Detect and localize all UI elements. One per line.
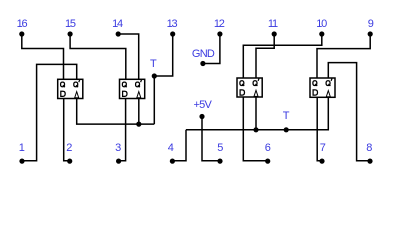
- pin label 11: [268, 19, 277, 29]
- wire FF2 clock stub: [138, 99, 140, 125]
- pin 11: [272, 31, 277, 36]
- pin 16: [19, 31, 24, 36]
- wire FF4 D to pin7: [317, 97, 322, 161]
- pin 2: [67, 159, 72, 164]
- flip-flop FF3: [237, 78, 262, 97]
- pin label 12: [214, 19, 224, 29]
- wire node T down to clock bus: [153, 76, 155, 124]
- pin 12: [217, 31, 222, 36]
- pin label 1: [19, 143, 24, 153]
- pin label 2: [66, 143, 71, 153]
- pin label 10: [316, 19, 326, 29]
- wire pin4 up to right clock bus: [172, 130, 186, 161]
- wire FF3 clock stub: [255, 97, 257, 130]
- pin label 5: [217, 143, 222, 153]
- pin 6: [265, 159, 270, 164]
- pin 14: [116, 31, 121, 36]
- node T (clock input): [152, 73, 157, 78]
- pin label 15: [65, 19, 75, 29]
- pin label 9: [368, 19, 373, 29]
- wire FF4 Q' to pin8: [328, 63, 370, 161]
- wire pin1 to FF1 Q': [22, 64, 77, 160]
- pin label 3: [115, 143, 120, 153]
- wire pin9 to FF4 Q: [317, 34, 370, 78]
- wire right clock bus to FF4 clock: [186, 97, 328, 130]
- wire pin15 to FF2 Q: [70, 34, 126, 79]
- ground terminal GND: [200, 61, 205, 66]
- wire pin16 to FF1 Q: [22, 34, 64, 79]
- pin 9: [368, 31, 373, 36]
- junction FF3 clock on bus: [253, 127, 258, 132]
- pin label 8: [366, 143, 371, 153]
- pin label 14: [112, 19, 122, 29]
- pin 3: [116, 159, 121, 164]
- supply terminal +5V: [199, 114, 204, 119]
- net label GND: [192, 49, 214, 59]
- wire pin10 to FF3 Q: [243, 34, 321, 78]
- pin label 16: [17, 19, 27, 29]
- pin 4: [170, 159, 175, 164]
- node T (right clock bus): [284, 127, 289, 132]
- pin 15: [68, 31, 73, 36]
- wire FF1 clock to left clock bus: [77, 99, 155, 125]
- wire pin12 to GND: [203, 34, 220, 64]
- flip-flop FF2: [120, 79, 145, 98]
- pin 5: [217, 159, 222, 164]
- junction FF2 clock on bus: [136, 122, 141, 127]
- net label T (right clock bus): [283, 111, 289, 121]
- pin 10: [319, 31, 324, 36]
- net label +5V: [194, 100, 212, 110]
- wire FF1 D to pin2: [64, 99, 70, 161]
- wire +5V to pin5: [202, 117, 220, 161]
- pin label 6: [265, 143, 270, 153]
- pin 13: [170, 31, 175, 36]
- wire pin13 to node T: [154, 34, 172, 76]
- wire pin14 to FF2 Q': [118, 34, 139, 79]
- flip-flop FF4: [310, 78, 335, 97]
- pin 7: [319, 159, 324, 164]
- wire pin11 to FF3 Q': [256, 34, 274, 78]
- wire FF3 D to pin6: [243, 97, 267, 161]
- pin label 13: [167, 19, 177, 29]
- pin label 4: [168, 143, 173, 153]
- flip-flop FF1: [58, 79, 83, 98]
- pin 1: [19, 159, 24, 164]
- pin 8: [367, 159, 372, 164]
- wire FF2 D to pin3: [119, 99, 126, 161]
- net label T (left clock node): [150, 59, 156, 69]
- pin label 7: [320, 143, 325, 153]
